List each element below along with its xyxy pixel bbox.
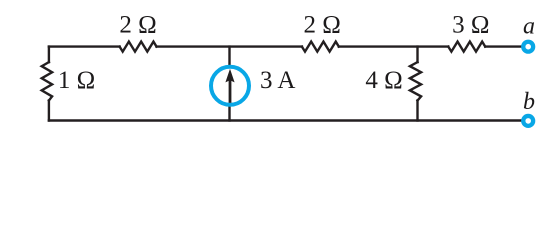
- wire right vertical bottom: [416, 101, 418, 121]
- resistor R2 2ohm zigzag: [302, 42, 339, 52]
- resistor R4 1ohm vertical zigzag: [42, 62, 52, 100]
- wire top rail segment 2: [157, 45, 302, 47]
- current source I1 circle: [211, 67, 249, 105]
- svg-text:3 A: 3 A: [260, 67, 295, 94]
- terminal b node circle: [523, 116, 533, 126]
- wire top rail segment 1: [49, 45, 120, 47]
- svg-text:2 Ω: 2 Ω: [304, 11, 341, 38]
- wire bottom rail: [49, 119, 522, 121]
- svg-text:3 Ω: 3 Ω: [452, 11, 489, 38]
- svg-text:4 Ω: 4 Ω: [365, 67, 402, 94]
- wire left vertical bottom: [48, 101, 50, 121]
- svg-text:a: a: [523, 13, 535, 39]
- resistor R3 3ohm zigzag: [448, 42, 485, 52]
- svg-text:b: b: [523, 89, 535, 115]
- wire top rail segment 3: [339, 45, 449, 47]
- resistor R5 4ohm vertical zigzag: [410, 62, 421, 100]
- current source I1 arrow head: [225, 69, 234, 83]
- wire top rail segment 4 to terminal a: [485, 45, 521, 47]
- wire right vertical top: [416, 47, 418, 63]
- wire middle vertical top: [228, 47, 230, 67]
- svg-text:1 Ω: 1 Ω: [58, 67, 95, 94]
- current source I1 arrow shaft: [229, 80, 232, 103]
- wire middle vertical bottom: [228, 105, 230, 121]
- resistor R1 2ohm zigzag: [120, 42, 157, 52]
- svg-text:2 Ω: 2 Ω: [119, 11, 156, 38]
- wire left vertical top: [48, 47, 50, 63]
- terminal a node circle: [523, 42, 533, 52]
